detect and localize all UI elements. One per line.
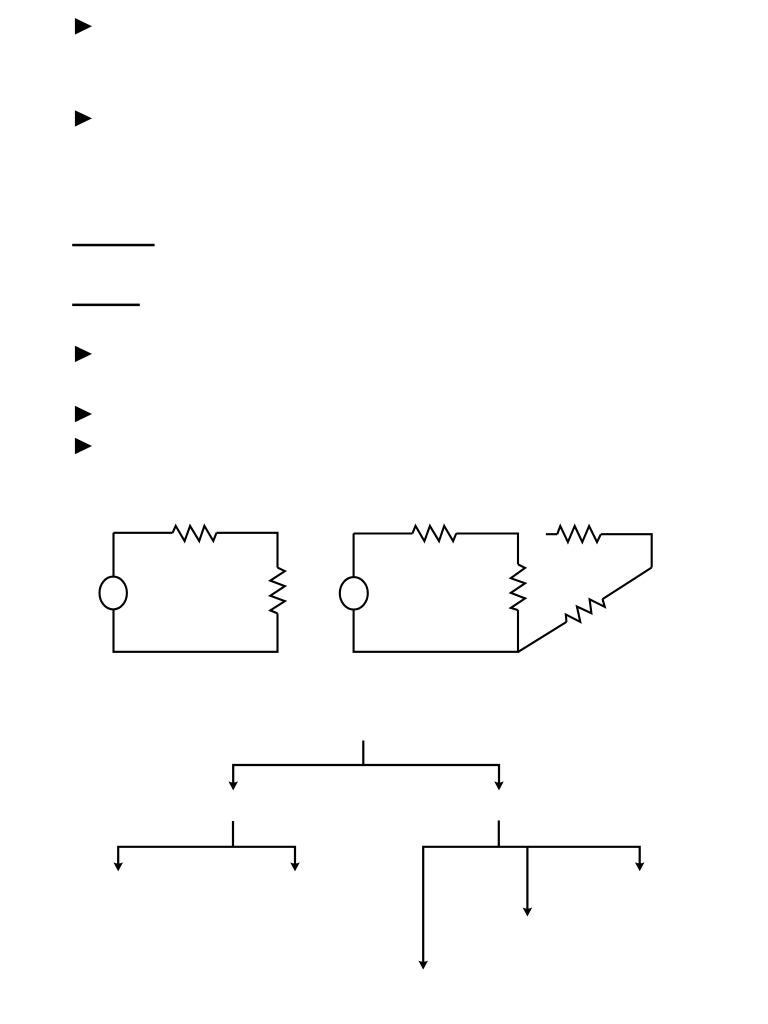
rule line 2: [72, 304, 140, 307]
bullet 3: [75, 346, 92, 362]
resistor R6: [566, 599, 605, 622]
wire top-right of circuit 2: [456, 534, 518, 565]
wire diagonal lower lead to node A: [518, 622, 566, 652]
tree level-2 right bracket with long drop: [423, 847, 640, 964]
rule line 1: [72, 244, 154, 247]
tree middle drop: [526, 847, 528, 911]
voltage source V2: [340, 577, 368, 609]
tree level-2 left stem: [232, 821, 234, 847]
resistor R5: [557, 526, 601, 542]
wire top-right of circuit 1: [217, 533, 278, 568]
tree level-2 right stem: [498, 821, 500, 847]
resistor R4: [511, 564, 525, 610]
bullet 4: [75, 406, 92, 422]
arrowhead middle drop: [523, 908, 533, 917]
arrowhead level-1 left: [228, 781, 238, 790]
tree level-1 bracket: [233, 765, 499, 785]
arrowhead level-2 far-left: [113, 862, 123, 871]
wire diagonal upper lead: [603, 568, 652, 600]
tree root stem: [362, 741, 364, 766]
bullet 1: [75, 18, 92, 35]
arrowhead level-1 right: [494, 781, 504, 790]
arrowhead level-2 far-right: [635, 862, 645, 871]
bullet 5: [75, 438, 92, 454]
tree level-2 left bracket: [118, 847, 295, 866]
arrowhead level-2 mid-left: [290, 862, 300, 871]
wire right side of R5 branch: [601, 534, 652, 567]
arrowhead long drop: [418, 961, 428, 970]
wire stub left of R5: [546, 533, 557, 535]
wire top-left of circuit 2: [354, 532, 413, 534]
wire bottom and left of circuit 2: [354, 534, 518, 652]
wire top-left of circuit 1: [114, 532, 173, 534]
wire bottom and left of circuit 1: [114, 533, 278, 652]
bullet 2: [75, 110, 92, 126]
resistor R1: [173, 526, 217, 541]
resistor R3: [412, 526, 456, 541]
voltage source V1: [100, 577, 127, 610]
resistor R2: [270, 568, 285, 614]
